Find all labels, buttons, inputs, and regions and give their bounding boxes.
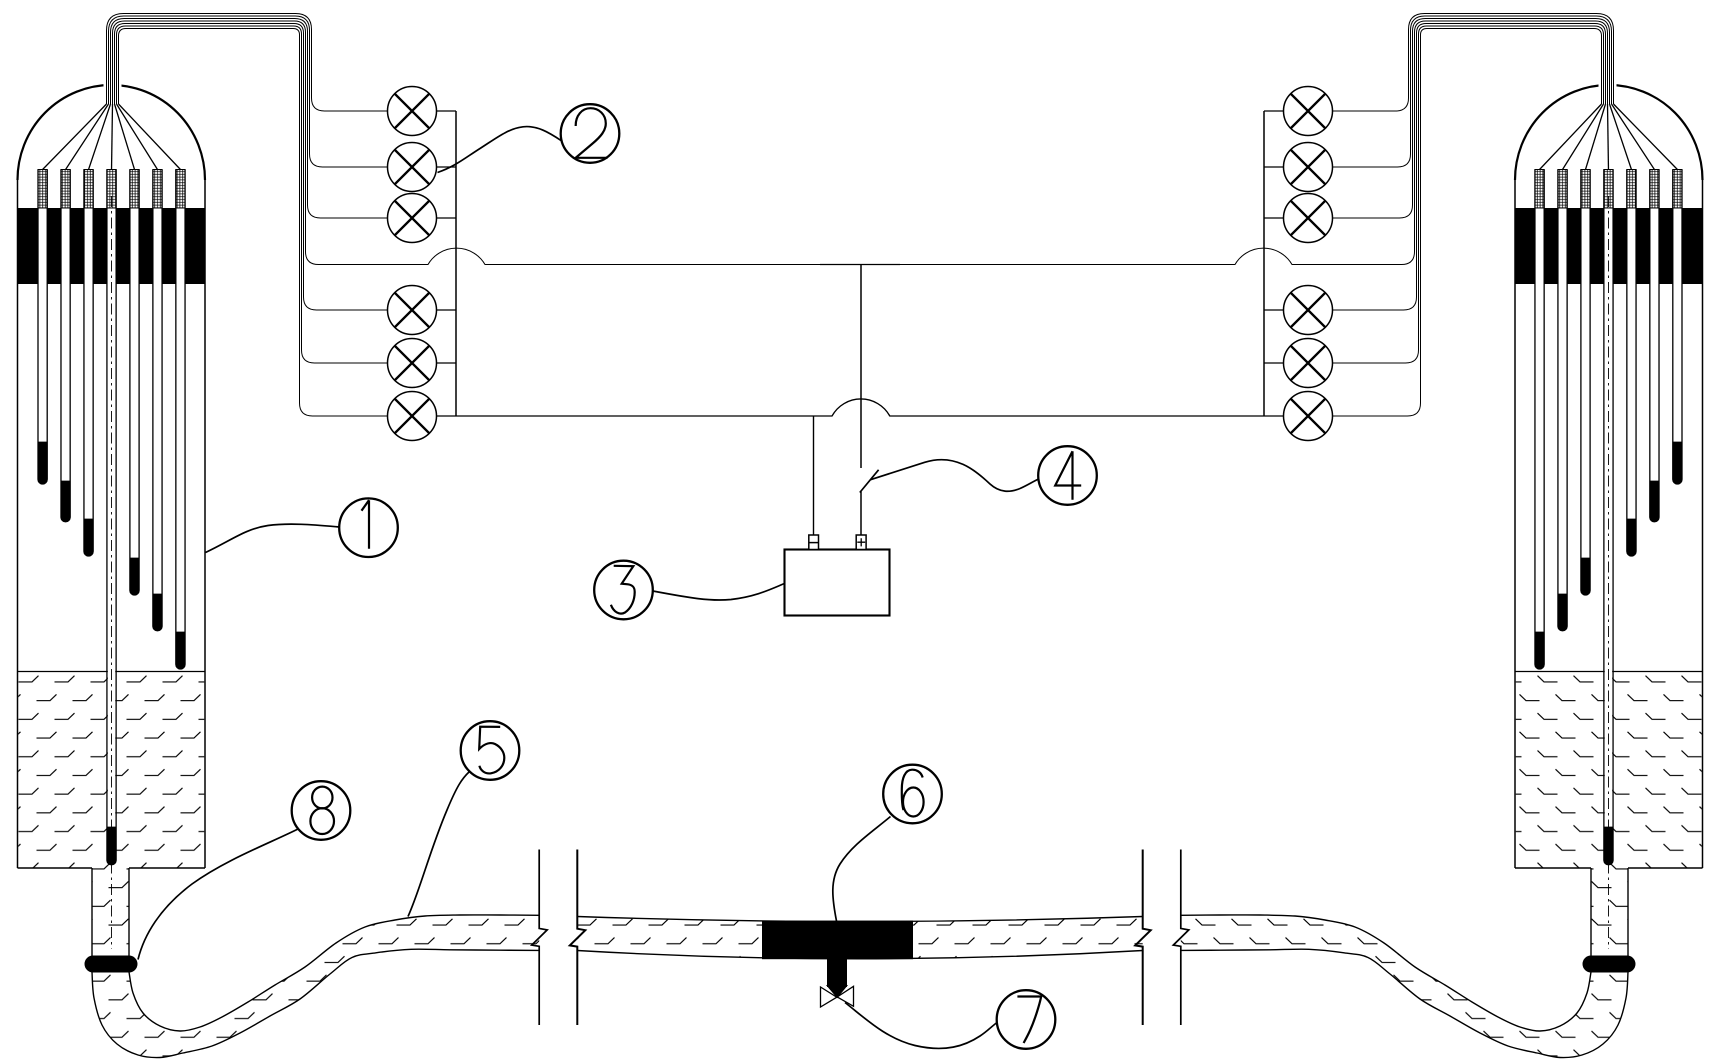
sampling tube 5 slot through packer [130, 208, 139, 285]
sampling tube 7 slot through packer [176, 208, 185, 285]
left well casing right wall [204, 180, 206, 868]
left well casing left wall [17, 180, 19, 868]
sampling tube 3 screened top section [84, 170, 93, 209]
wire from top bus down to + terminal (with break) [860, 265, 862, 536]
crossed-circle device V5 (left column) [388, 286, 457, 335]
label circle 5 [461, 721, 520, 780]
sampling tube 2 walls [61, 170, 70, 522]
sampling tube 4 slot through packer [107, 208, 116, 285]
crossed-circle device V3 (left column) [388, 194, 457, 243]
+ terminal of box [856, 535, 866, 550]
bottom packer on riser (black stadium) [85, 956, 138, 973]
crossed-circle device V6 (left column) [388, 339, 457, 388]
cable/tube line 6 of left bundle [117, 26, 388, 363]
left manifold vertical line [455, 111, 457, 416]
switch slash on + wire (leader 4 arrow) [860, 470, 879, 493]
label circle 1 [339, 498, 398, 557]
leader line to label 2 [438, 127, 562, 173]
crossed-circle device V7 (left column) [388, 392, 457, 441]
leader line to label 4 [871, 460, 1039, 492]
label circle 7 [997, 990, 1056, 1049]
label circle 8 [292, 781, 351, 840]
control box 3 (battery/power box) [785, 550, 890, 616]
sampling tube 1 black intake tip [38, 442, 47, 484]
label circle 3 [594, 561, 653, 620]
sampling tube 3 black intake tip [84, 519, 93, 556]
leader line to label 6 [833, 817, 891, 922]
leader line to label 5 [408, 772, 470, 917]
well axis centerline (dash-dot) [111, 196, 113, 949]
drain valve 7 (bowtie) [821, 985, 854, 1007]
water table line left well [18, 671, 206, 673]
leader line to label 1 [206, 524, 340, 552]
label circle 2 [561, 104, 620, 163]
sampling tube 4 interior (deep tube) [108, 284, 115, 859]
label circle 6 [883, 765, 942, 824]
crossed-circle device V1 (left column) [388, 87, 457, 136]
cable/tube line 4 of left bundle [113, 21, 821, 265]
left well bottom edge [18, 867, 206, 869]
sampling tube 5 walls [130, 170, 139, 596]
cable/tube line 1 of left bundle [107, 14, 388, 112]
riser pipe below well + sweep to buried pipe (hatched) [92, 868, 539, 1058]
black band / packer column in left well [18, 208, 206, 284]
sampling tube 5 black intake tip [130, 558, 139, 595]
sampling tube 2 screened top section [61, 170, 70, 209]
sampling tube 4 black intake tip [107, 827, 116, 865]
buried horizontal pipe (center section, hatched) [577, 917, 1142, 959]
sampling tube 4 walls [107, 170, 116, 865]
fan-out of 7 tubes inside left dome [43, 104, 107, 170]
sampling tube 6 walls [153, 170, 162, 631]
leader line to label 7 [845, 1003, 997, 1049]
sampling tube 6 screened top section [153, 170, 162, 209]
sampling tube 5 screened top section [130, 170, 139, 209]
flow control device 6 (black block on pipe) [762, 921, 913, 960]
cable/tube line 3 of left bundle [111, 19, 388, 219]
sampling tube 2 slot through packer [61, 208, 70, 285]
wire from bottom bus down to - terminal [813, 416, 815, 535]
label circle 4 [1038, 446, 1097, 505]
cable/tube line 7 of left bundle [119, 29, 388, 417]
leader line to label 8 [138, 829, 298, 960]
left manifold-to-center line (bottom bus) [456, 415, 820, 417]
- terminal of box [809, 535, 819, 550]
crossed-circle device V2 (left column) [388, 143, 457, 192]
sampling tube 7 screened top section [176, 170, 185, 209]
leader line to label 3 [653, 584, 785, 601]
sampling tube 3 slot through packer [84, 208, 93, 285]
sampling tube 7 walls [176, 170, 185, 670]
left monitoring well 1 : dome top [18, 85, 206, 180]
pipe break symbol left pair [532, 850, 548, 1026]
sampling tube 3 walls [84, 170, 93, 557]
white corridor under cable bundle [113, 15, 306, 257]
pipe break symbol right pair [1135, 850, 1151, 1026]
sampling tube 7 black intake tip [176, 632, 185, 669]
sampling tube 6 black intake tip [153, 594, 162, 631]
cable/tube line 2 of left bundle [109, 16, 388, 167]
cable/tube line 5 of left bundle [115, 24, 388, 311]
sampling tube 1 screened top section [38, 170, 47, 209]
sampling tube 1 walls [38, 170, 47, 484]
bottom bus center segment with hop over + wire [820, 399, 900, 416]
sampling tube 2 black intake tip [61, 481, 70, 522]
stub below device 6 [827, 958, 847, 987]
sampling tube 1 slot through packer [38, 208, 47, 285]
top bus line joining 4th branches (crosses figure) [820, 264, 900, 266]
groundwater zone hatch in left well [18, 672, 204, 869]
sampling tube 6 slot through packer [153, 208, 162, 285]
sampling tube 4 screened top section [107, 170, 116, 209]
